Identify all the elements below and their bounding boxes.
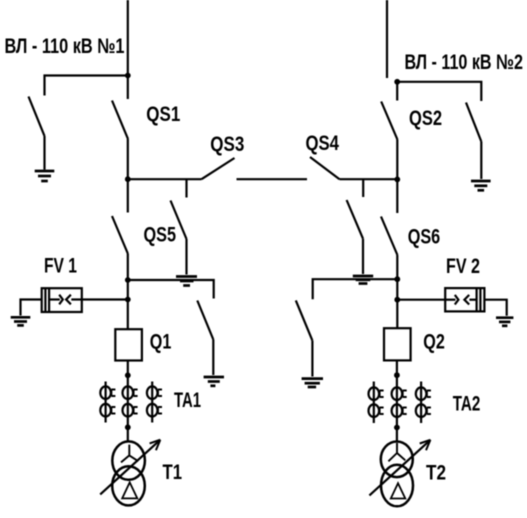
circuit breaker Q2 [384, 328, 411, 360]
disconnector QS1 blade [112, 101, 128, 140]
ground (line 1 earthing switch) [35, 171, 55, 181]
wire main right below bus [396, 179, 398, 213]
svg-text:QS3: QS3 [210, 133, 244, 156]
wire to ground (left bus earthing) [185, 239, 187, 275]
wire bus right [340, 178, 398, 180]
node below TA1 [125, 424, 131, 430]
transformer T1 [112, 441, 145, 479]
wire main to FV2 [397, 299, 445, 301]
node junction line1 / earthing branch [125, 73, 131, 79]
node junction line2 [394, 79, 400, 85]
wire horizontal right y279 [313, 279, 398, 299]
regulation arrow T2 [369, 441, 428, 495]
svg-text:QS2: QS2 [409, 107, 442, 130]
surge arrester FV1 [42, 288, 82, 312]
svg-text:T2: T2 [426, 462, 446, 485]
node right at y279 [394, 276, 400, 282]
svg-text:QS5: QS5 [144, 223, 177, 246]
earthing switch blade (right bus) [347, 200, 363, 239]
wire QS6 to Q2 [396, 255, 398, 328]
ground (FV2) [496, 318, 513, 326]
wire to ground (right bus earthing) [362, 239, 364, 274]
node bus right [394, 177, 400, 183]
wire main left below bus [127, 179, 129, 212]
wire horizontal left y280 [128, 280, 214, 299]
node bus left [125, 176, 131, 182]
star winding T1 [121, 445, 138, 463]
wire FV1 to main [82, 298, 128, 300]
node right at y299.7 (FV2 tap) [394, 297, 400, 303]
wire bus left [128, 178, 202, 180]
circuit breaker Q1 [115, 329, 142, 360]
svg-text:ВЛ - 110 кВ №2: ВЛ - 110 кВ №2 [405, 51, 524, 74]
node left at y299.5 (FV1 tap) [125, 297, 131, 303]
earthing switch blade (left bus) [171, 201, 187, 240]
ground (line 2 earthing switch) [471, 181, 491, 190]
current transformer TA1 [100, 382, 162, 423]
earthing switch blade (line 1) [29, 97, 45, 137]
node above TA1 [125, 372, 131, 378]
wire incoming line 2 [386, 0, 388, 78]
svg-text:QS6: QS6 [408, 226, 441, 249]
wire stub left earthing [185, 179, 187, 197]
star winding T2 [388, 443, 405, 461]
disconnector QS5 blade [112, 216, 128, 254]
node above TA2 [394, 372, 400, 378]
regulation arrow T1 [100, 441, 158, 494]
disconnector QS3 blade [202, 158, 235, 179]
surge arrester FV2 [445, 288, 484, 311]
transformer T2 [381, 442, 413, 478]
wire Q1 to T1 [127, 361, 129, 443]
wire QS5 to Q1 [127, 254, 129, 330]
wire branch to earthing switch 2 [397, 82, 481, 101]
ground (left lower earthing) [204, 377, 224, 386]
wire QS2 stub [396, 82, 398, 101]
svg-text:Q2: Q2 [423, 331, 445, 354]
wire to ground 2 [480, 142, 482, 180]
current transformer TA2 [369, 382, 431, 424]
earthing switch blade (left lower) [197, 301, 213, 340]
ground (right bus earthing) [353, 276, 373, 284]
wire stub right earthing [362, 179, 364, 197]
ground (left bus earthing) [176, 277, 197, 286]
svg-text:FV 1: FV 1 [44, 255, 77, 278]
earthing switch blade (right lower) [296, 300, 313, 340]
wire incoming line 1 [127, 0, 129, 99]
wire FV1 to ground [21, 300, 42, 316]
svg-text:TA2: TA2 [453, 392, 481, 415]
ground (right lower earthing) [302, 379, 323, 387]
delta winding T2 [391, 483, 406, 498]
disconnector QS4 blade [310, 157, 340, 179]
svg-text:QS1: QS1 [146, 103, 180, 126]
wire QS1 to bus [127, 139, 129, 179]
wire FV2 to ground [484, 300, 506, 316]
svg-text:T1: T1 [163, 461, 183, 484]
earthing switch blade (line 2) [466, 103, 481, 142]
node left at y280 [125, 277, 131, 283]
wire to ground (left lower earthing) [212, 340, 214, 376]
svg-text:FV 2: FV 2 [446, 255, 480, 278]
svg-text:QS4: QS4 [306, 132, 340, 155]
svg-text:TA1: TA1 [174, 389, 201, 412]
wire Q2 to T2 [396, 360, 398, 442]
ground (FV1) [11, 317, 31, 325]
svg-text:ВЛ - 110 кВ №1: ВЛ - 110 кВ №1 [5, 35, 125, 58]
wire to ground (right lower earthing) [311, 341, 313, 377]
svg-text:Q1: Q1 [150, 331, 172, 354]
disconnector QS6 blade [381, 217, 397, 256]
delta winding T1 [122, 482, 137, 498]
disconnector QS2 blade [381, 102, 397, 140]
wire tie middle [237, 178, 308, 180]
node below TA2 [394, 425, 400, 431]
wire branch to earthing switch 1 [45, 76, 128, 96]
wire to ground 1 [43, 136, 45, 170]
wire QS2 to bus [396, 140, 398, 180]
